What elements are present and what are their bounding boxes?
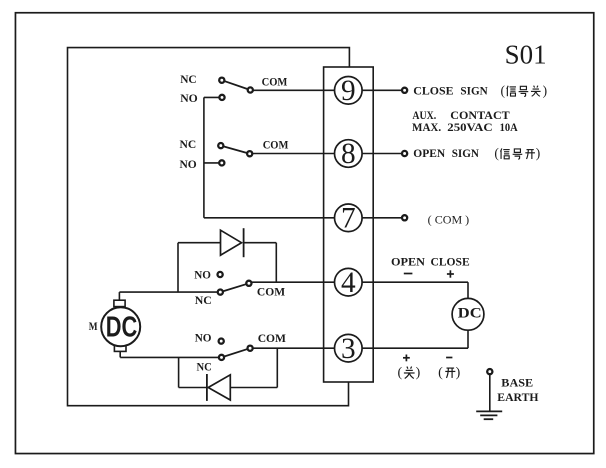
svg-text:NO: NO [180,91,198,105]
svg-text:10A: 10A [500,120,518,134]
svg-text:CLOSE: CLOSE [413,83,453,97]
svg-text:COM: COM [258,331,286,345]
svg-text:NO: NO [194,268,211,282]
svg-text:8: 8 [341,138,356,170]
svg-text:(: ( [438,365,443,380]
svg-text:NC: NC [180,72,197,86]
svg-text:NC: NC [180,137,197,151]
svg-text:M: M [89,319,98,333]
svg-text:NC: NC [197,359,212,373]
svg-text:MAX.: MAX. [412,120,441,134]
svg-text:COM: COM [257,285,285,299]
svg-text:OPEN: OPEN [391,254,425,268]
svg-text:OPEN: OPEN [413,146,445,160]
svg-text:(: ( [397,365,402,380]
svg-text:DC: DC [458,305,482,321]
svg-text:NO: NO [180,157,197,171]
svg-text:NC: NC [195,293,212,307]
svg-text:7: 7 [341,203,356,235]
svg-text:): ) [416,365,421,380]
svg-text:250VAC: 250VAC [447,120,492,134]
svg-text:4: 4 [341,267,356,299]
svg-text:(: ( [500,83,505,98]
svg-text:( COM ): ( COM ) [428,212,470,226]
svg-text:EARTH: EARTH [497,390,539,404]
svg-text:9: 9 [341,75,356,107]
svg-text:S01: S01 [505,39,547,69]
svg-text:NO: NO [195,331,212,345]
svg-text:BASE: BASE [501,375,533,389]
svg-text:): ) [536,146,541,161]
svg-text:COM: COM [263,138,289,152]
svg-text:CLOSE: CLOSE [431,254,470,268]
svg-text:3: 3 [341,333,356,365]
svg-text:(: ( [494,146,499,161]
svg-text:): ) [543,83,548,98]
svg-text:SIGN: SIGN [452,146,480,160]
svg-text:COM: COM [262,75,288,89]
svg-text:): ) [456,365,461,380]
svg-text:DC: DC [106,312,138,344]
svg-text:SIGN: SIGN [460,83,488,97]
